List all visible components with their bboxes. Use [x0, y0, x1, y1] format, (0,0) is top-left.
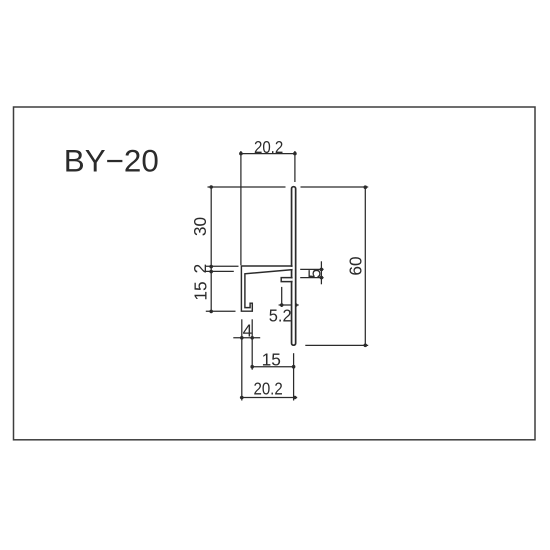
svg-text:60: 60: [345, 256, 365, 275]
svg-text:20.2: 20.2: [253, 379, 282, 398]
svg-text:BY−20: BY−20: [64, 143, 159, 179]
svg-text:30: 30: [190, 217, 210, 236]
svg-text:4: 4: [243, 321, 253, 341]
svg-text:20.2: 20.2: [254, 138, 283, 157]
svg-text:2: 2: [190, 264, 210, 274]
svg-text:5.2: 5.2: [269, 306, 292, 325]
svg-text:15: 15: [190, 281, 210, 300]
svg-text:15: 15: [262, 349, 281, 369]
svg-text:5: 5: [304, 269, 324, 279]
